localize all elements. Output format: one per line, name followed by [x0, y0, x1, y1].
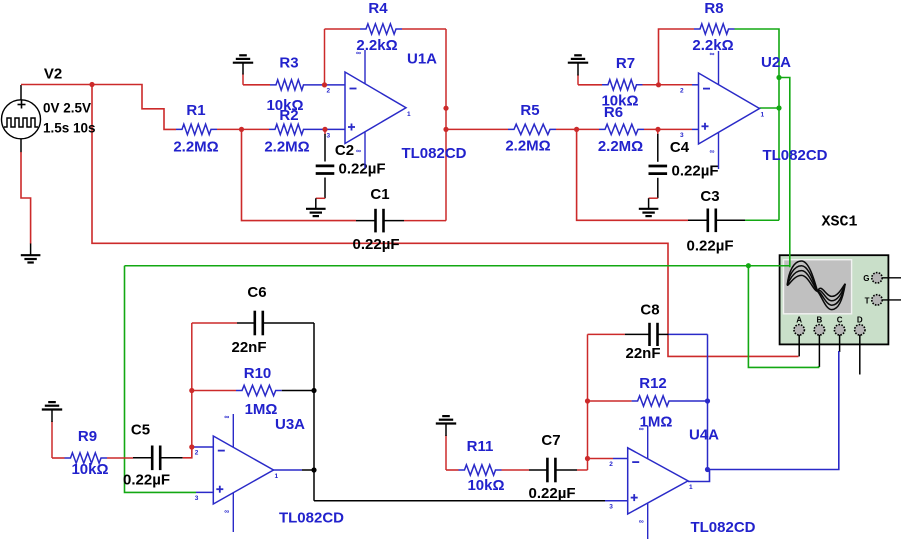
resistor R4	[360, 24, 402, 34]
wire into U3A plus input	[196, 491, 213, 493]
svg-text:2.2MΩ: 2.2MΩ	[264, 139, 309, 156]
wire node A down to long bottom feed	[92, 85, 799, 357]
wire long horizontal green net	[125, 265, 790, 267]
wire C7 to U4A feedback vertical	[577, 469, 588, 471]
wire C1 right lead	[384, 220, 405, 222]
op-amp U4A	[609, 426, 693, 539]
wire C2 to ground	[324, 178, 326, 199]
wire R9 to C5	[107, 457, 133, 459]
wire U4A minus branch	[588, 458, 614, 460]
wire U1A output to R5	[446, 128, 508, 130]
svg-text:2.2MΩ: 2.2MΩ	[173, 139, 218, 156]
wire R12 left lead	[588, 400, 632, 402]
wire C5 to U3A minus junction	[183, 447, 192, 458]
resistor R10	[236, 385, 282, 395]
junction U3A output	[311, 467, 316, 472]
oscilloscope terminal A	[794, 316, 804, 335]
svg-text:C5: C5	[131, 422, 150, 439]
wire ground to R3	[242, 74, 244, 85]
ground above R3	[233, 62, 253, 64]
capacitor C7	[546, 458, 549, 483]
svg-text:G: G	[863, 274, 869, 283]
svg-text:V2: V2	[44, 66, 62, 83]
oscilloscope terminal C	[834, 316, 844, 335]
svg-text:R9: R9	[78, 428, 97, 445]
wire C2 branch from plus junction	[324, 131, 326, 135]
svg-text:B: B	[817, 316, 823, 325]
wire C8 right lead	[658, 333, 669, 335]
junction R3-R4 minus node	[322, 82, 327, 87]
capacitor C3	[706, 209, 709, 233]
junction R5-R6-C3	[574, 127, 579, 132]
op-amp U2A	[680, 51, 765, 169]
op-amp U3A	[195, 414, 279, 532]
svg-text:C8: C8	[640, 302, 659, 319]
svg-text:∞: ∞	[224, 414, 229, 421]
svg-text:C4: C4	[670, 139, 690, 156]
svg-text:R7: R7	[616, 55, 635, 72]
svg-text:XSC1: XSC1	[821, 214, 857, 231]
ground above R11	[436, 422, 456, 424]
wire U1A output vertical	[445, 29, 447, 221]
junction R12 left	[585, 398, 590, 403]
wire C3 right lead	[716, 219, 745, 221]
svg-text:3: 3	[680, 132, 684, 139]
junction R7-R8 minus node	[656, 82, 661, 87]
wire R1 to R2 junction	[217, 128, 269, 130]
wire V2 output to R1 (node A)	[21, 85, 176, 130]
wire to C6 left	[192, 322, 237, 324]
svg-text:∞: ∞	[356, 50, 361, 57]
oscilloscope XSC1 body	[780, 255, 889, 344]
junction R2-C2 plus node	[322, 127, 327, 132]
svg-text:C7: C7	[541, 432, 560, 449]
oscilloscope pin stub D	[859, 335, 861, 375]
wire R2 to C2/plus junction	[310, 128, 346, 130]
svg-text:TL082CD: TL082CD	[762, 147, 827, 164]
svg-text:22nF: 22nF	[625, 345, 660, 362]
wire C1 left lead	[356, 220, 376, 222]
wire ground to R7	[577, 75, 579, 85]
svg-text:1: 1	[689, 484, 693, 491]
wire into U3A minus input	[192, 446, 214, 448]
svg-text:0.22µF: 0.22µF	[123, 472, 170, 489]
svg-text:R1: R1	[186, 102, 205, 119]
svg-text:C3: C3	[700, 188, 719, 205]
svg-text:0.22µF: 0.22µF	[529, 485, 576, 502]
wire C6 right lead	[263, 322, 314, 324]
wire R4 left leg	[402, 28, 446, 30]
svg-text:R10: R10	[244, 365, 272, 382]
capacitor C2	[316, 164, 335, 167]
svg-text:R12: R12	[639, 375, 667, 392]
resistor R9	[65, 453, 108, 463]
oscilloscope terminal D	[855, 316, 865, 335]
svg-text:22nF: 22nF	[231, 339, 266, 356]
svg-text:10kΩ: 10kΩ	[467, 477, 504, 494]
wire C8 right to output vertical (blue)	[669, 333, 708, 335]
wire C4 to ground	[657, 178, 659, 198]
svg-text:0.22µF: 0.22µF	[339, 161, 386, 178]
wire R8 left leg	[659, 29, 695, 85]
wire C4 branch from plus junction	[657, 131, 659, 135]
junction U4A minus	[585, 456, 590, 461]
svg-text:T: T	[865, 296, 870, 305]
resistor R8	[694, 24, 735, 34]
wire C6 left lead	[237, 322, 255, 324]
wire V2 top lead	[20, 85, 22, 100]
ground above R7	[568, 62, 588, 64]
junction U1A output to R5	[443, 127, 448, 132]
resistor R3	[270, 80, 310, 90]
oscilloscope terminal G	[863, 273, 901, 284]
wire R12 right lead to vertical	[675, 400, 708, 402]
svg-text:∞: ∞	[224, 509, 229, 516]
svg-text:1: 1	[275, 473, 279, 480]
resistor R6	[599, 124, 644, 134]
svg-text:C1: C1	[370, 186, 389, 203]
wire R7 to U2A minus junction	[643, 84, 693, 86]
ground V2	[21, 254, 41, 256]
wire V2 bottom lead	[20, 139, 22, 153]
resistor R11	[459, 465, 502, 475]
wire C3 left lead	[688, 219, 708, 221]
wire R5 to R6 junction	[556, 128, 599, 130]
svg-text:C: C	[837, 316, 843, 325]
svg-text:∞: ∞	[710, 51, 715, 58]
wire U4A output vertical	[707, 334, 709, 469]
svg-text:0.22µF: 0.22µF	[353, 236, 400, 253]
resistor R1	[176, 124, 217, 134]
wire U2A output branch to scope net	[779, 78, 790, 268]
capacitor C6	[254, 311, 257, 336]
wire R3 to U1A minus input	[310, 84, 346, 86]
wire C3 right to U2A output net	[745, 219, 779, 221]
svg-text:0V 2.5V: 0V 2.5V	[43, 101, 91, 116]
junction U1A output	[443, 106, 448, 111]
svg-text:10kΩ: 10kΩ	[266, 97, 303, 114]
junction V2 node	[89, 82, 94, 87]
svg-text:0.22µF: 0.22µF	[672, 163, 719, 180]
svg-text:3: 3	[609, 503, 613, 510]
wire C7 right lead	[555, 469, 577, 471]
oscilloscope screen sine waves	[787, 261, 845, 310]
oscilloscope pin stub B	[818, 335, 820, 367]
wire C1 right to output vertical	[404, 220, 446, 222]
svg-text:U4A: U4A	[689, 426, 719, 443]
oscilloscope terminal B	[814, 316, 824, 335]
wire junction down to C1 left	[242, 129, 357, 220]
wire U3A output to U4A plus input	[314, 500, 605, 502]
wire ground stem to R3 row	[243, 84, 270, 86]
wire junction down to C3 left	[577, 129, 688, 220]
svg-text:2: 2	[327, 87, 331, 94]
svg-text:3: 3	[327, 133, 331, 140]
svg-text:D: D	[857, 316, 863, 325]
wire U4A output to scope channel C	[708, 351, 839, 470]
svg-text:1: 1	[407, 111, 411, 118]
svg-text:1MΩ: 1MΩ	[640, 414, 673, 431]
junction green net scope B	[746, 263, 751, 268]
svg-text:2.2MΩ: 2.2MΩ	[598, 138, 643, 155]
svg-text:3: 3	[195, 495, 199, 502]
op-amp U1A	[327, 50, 412, 169]
svg-text:∞: ∞	[639, 519, 644, 526]
resistor R5	[508, 124, 556, 134]
oscilloscope pin stub A	[798, 335, 800, 357]
wire U2A output stub	[760, 107, 780, 109]
voltage source V2	[2, 100, 41, 139]
resistor R2	[269, 124, 310, 134]
oscilloscope pin stub C	[839, 335, 841, 352]
ground above R9	[42, 408, 62, 410]
svg-text:1MΩ: 1MΩ	[245, 401, 278, 418]
svg-text:2: 2	[680, 88, 684, 95]
wire U4A output stub	[688, 470, 710, 482]
svg-text:R5: R5	[520, 102, 539, 119]
wire R10 right to black vertical	[282, 390, 314, 392]
junction R10 right	[311, 388, 316, 393]
capacitor C5	[151, 446, 154, 471]
svg-text:∞: ∞	[356, 148, 361, 155]
wire U3A feedback vertical	[191, 323, 193, 458]
svg-text:2.2MΩ: 2.2MΩ	[505, 138, 550, 155]
junction R12 right	[705, 398, 710, 403]
junction U2A scope branch	[776, 75, 781, 80]
ground below C4	[639, 208, 659, 210]
capacitor C1	[374, 209, 377, 233]
wire V2 to ground	[21, 152, 31, 244]
svg-text:∞: ∞	[639, 426, 644, 433]
wire into U2A plus input	[692, 128, 699, 130]
svg-text:R11: R11	[467, 438, 494, 455]
wire C7 left lead	[529, 469, 547, 471]
wire R8 right to output (green)	[735, 29, 780, 220]
svg-text:0.22µF: 0.22µF	[687, 238, 734, 255]
resistor R7	[602, 80, 643, 90]
wire C5 left lead	[133, 457, 152, 459]
wire C8 left red	[588, 333, 625, 335]
svg-text:A: A	[796, 316, 802, 325]
svg-text:U3A: U3A	[275, 416, 305, 433]
capacitor C8	[648, 323, 651, 346]
svg-text:C6: C6	[247, 284, 266, 301]
wire C8 left lead	[625, 333, 650, 335]
oscilloscope terminal T	[865, 295, 901, 306]
junction R10 left	[189, 388, 194, 393]
junction R1-R2-C1	[239, 127, 244, 132]
wire ground to R11	[445, 435, 447, 470]
svg-text:∞: ∞	[710, 149, 715, 156]
junction U4A output	[705, 467, 710, 472]
wire R10 left lead	[192, 390, 236, 392]
wire green net to scope channel B	[748, 266, 818, 368]
junction U2A output	[776, 105, 781, 110]
svg-text:R4: R4	[368, 0, 388, 17]
wire C5 right lead	[160, 457, 183, 459]
svg-text:2: 2	[609, 461, 613, 468]
wire R11 to C7	[502, 469, 530, 471]
ground below C2	[306, 208, 326, 210]
wire U4A feedback vertical	[587, 334, 589, 470]
resistor R12	[632, 396, 675, 406]
svg-text:1.5s 10s: 1.5s 10s	[43, 121, 96, 136]
wire V2 ground stub	[30, 244, 32, 256]
svg-text:TL082CD: TL082CD	[401, 145, 466, 162]
svg-text:U2A: U2A	[761, 54, 791, 71]
wire U3A output vertical (black)	[313, 323, 315, 501]
svg-text:2.2kΩ: 2.2kΩ	[356, 37, 397, 54]
wire U3A output stub	[274, 469, 303, 471]
junction R6-C4 plus node	[655, 127, 660, 132]
wire ground to R9	[51, 421, 53, 458]
svg-text:R3: R3	[279, 55, 298, 72]
wire R6 to U2A plus junction	[644, 128, 692, 130]
svg-text:2: 2	[195, 450, 199, 457]
wire green net down to U3A plus input	[125, 266, 197, 493]
wire into U2A minus input	[692, 84, 699, 86]
svg-text:TL082CD: TL082CD	[690, 519, 755, 536]
svg-text:R8: R8	[704, 0, 723, 17]
svg-text:1: 1	[761, 112, 765, 119]
svg-text:10kΩ: 10kΩ	[71, 461, 108, 478]
junction U3A minus	[189, 444, 194, 449]
svg-text:U1A: U1A	[407, 51, 437, 68]
capacitor C4	[649, 165, 668, 168]
svg-text:10kΩ: 10kΩ	[601, 93, 638, 110]
svg-text:TL082CD: TL082CD	[279, 510, 344, 527]
